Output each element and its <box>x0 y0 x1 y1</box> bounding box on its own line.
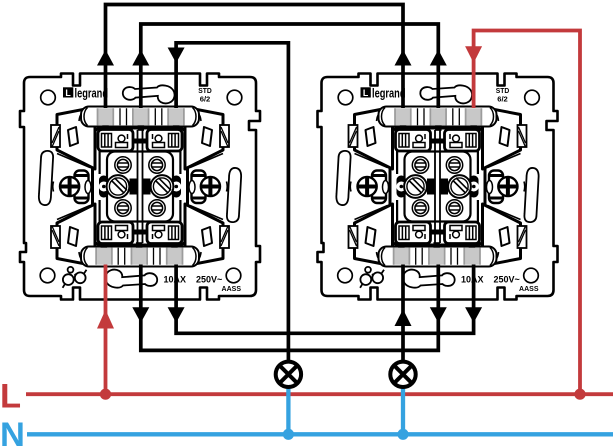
svg-text:L: L <box>0 378 21 416</box>
svg-text:N: N <box>0 416 25 448</box>
